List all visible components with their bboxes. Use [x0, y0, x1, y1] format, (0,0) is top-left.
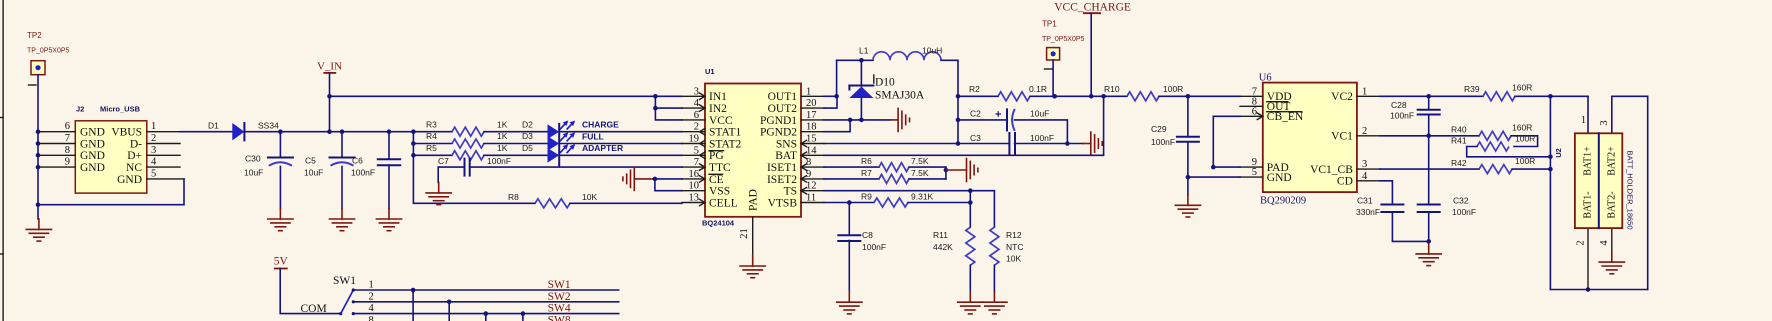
ground C30 — [268, 209, 293, 231]
svg-text:BAT1+: BAT1+ — [1583, 146, 1594, 176]
svg-text:SNS: SNS — [776, 138, 797, 150]
junction branch R4 — [411, 141, 416, 146]
svg-text:2: 2 — [1362, 126, 1367, 137]
wire V_IN vertical — [329, 73, 331, 132]
svg-text:0.1R: 0.1R — [1029, 84, 1047, 94]
svg-text:CB_EN: CB_EN — [1267, 111, 1304, 123]
LED D5 — [548, 148, 560, 163]
U1 pin 9 arrow — [801, 176, 807, 182]
capacitor C2 plus sign — [996, 111, 1002, 117]
svg-text:C5: C5 — [305, 156, 316, 166]
wire R39 to BAT1+ node — [1515, 95, 1588, 97]
J2 pin 1 — [147, 131, 180, 133]
capacitor C5 — [330, 158, 355, 166]
svg-text:20: 20 — [806, 98, 817, 109]
wire C7 to U1 TTC — [470, 166, 682, 168]
svg-text:J2: J2 — [76, 105, 84, 114]
wire C5 to ground — [341, 167, 343, 209]
wire C28 bottom — [1428, 115, 1430, 136]
svg-text:3: 3 — [151, 145, 156, 156]
junction GND bus row 7 — [36, 141, 41, 146]
wire C29 top — [1187, 96, 1189, 136]
ground C8 — [837, 292, 862, 314]
wire CD to C31 — [1380, 181, 1392, 205]
resistor R2 — [998, 92, 1030, 101]
junction rail / TP1 — [1052, 94, 1057, 99]
svg-text:R5: R5 — [426, 143, 437, 153]
svg-text:5V: 5V — [274, 256, 289, 268]
U6 CB_EN overline — [1267, 111, 1302, 113]
U1 PG overline — [709, 150, 724, 152]
svg-text:12: 12 — [806, 181, 817, 192]
wire VC1 to R40 — [1380, 135, 1479, 137]
wire C29 to ground — [1187, 142, 1189, 195]
svg-text:5: 5 — [1252, 167, 1257, 178]
svg-text:FULL: FULL — [582, 131, 604, 141]
U1 pin 3 (IN1) — [682, 95, 705, 97]
wire R6 to junction — [909, 166, 946, 168]
wire C32 bottom — [1428, 212, 1430, 243]
junction VC2 / C28 — [1426, 94, 1431, 99]
svg-text:160R: 160R — [1512, 82, 1532, 92]
svg-text:100nF: 100nF — [1030, 133, 1054, 143]
svg-text:10K: 10K — [1006, 253, 1021, 263]
wire C8 to ground — [848, 240, 850, 291]
wire ground to CE stub — [634, 178, 655, 180]
wire C32 top — [1428, 136, 1430, 205]
U1 pin 15 (SNS) — [801, 143, 824, 145]
switch SW1 arm — [341, 290, 354, 314]
U6 pin 1 (VC2) — [1357, 95, 1380, 97]
wire R11 to ground — [969, 265, 971, 292]
resistor R3 — [452, 127, 484, 136]
capacitor C31 — [1381, 205, 1403, 213]
U1 pin 2 (STAT1) — [682, 131, 705, 133]
ground U2 BAT2- — [1599, 252, 1624, 274]
svg-text:8: 8 — [65, 145, 70, 156]
resistor R8 — [535, 199, 570, 208]
wire C5 top — [341, 132, 343, 158]
ground C5 — [329, 209, 354, 231]
svg-text:C30: C30 — [245, 154, 261, 164]
J2 pin 8 — [38, 154, 75, 156]
svg-text:R4: R4 — [426, 131, 437, 141]
svg-text:VTSB: VTSB — [768, 197, 798, 209]
svg-text:100nF: 100nF — [1390, 110, 1414, 120]
junction R10 / C29 — [1186, 94, 1191, 99]
wire ISET1 to R6 — [824, 166, 879, 168]
wire rail to R2 — [958, 95, 998, 97]
LED D2 — [548, 124, 560, 139]
svg-text:IN2: IN2 — [709, 103, 727, 115]
switch SW1 common contact — [339, 312, 342, 315]
U6 OUT overline — [1267, 101, 1288, 103]
junction rail C30 — [278, 129, 283, 134]
U6 pin 9 (PAD) — [1240, 166, 1263, 168]
wire J2 VBUS to D1 — [180, 131, 232, 133]
U1 pin 6 (VCC) — [682, 119, 705, 121]
svg-text:R11: R11 — [933, 230, 948, 240]
wire C28 top — [1428, 96, 1430, 109]
wire R10 to U6 VDD — [1159, 95, 1240, 97]
svg-text:100nF: 100nF — [862, 242, 886, 252]
svg-text:7: 7 — [694, 157, 699, 168]
svg-text:10uF: 10uF — [1030, 109, 1049, 119]
wire C8 node to R9 — [849, 202, 874, 204]
diode D10 pin marker — [873, 75, 875, 83]
resistor R10 — [1127, 92, 1159, 101]
svg-text:BAT2-: BAT2- — [1607, 191, 1618, 218]
junction rail branch — [411, 129, 416, 134]
ground C31 C32 — [1416, 243, 1441, 265]
ground J2 GND bus — [26, 219, 51, 241]
svg-text:C29: C29 — [1151, 124, 1167, 134]
U1 pin 14 (BAT) — [801, 154, 824, 156]
junction SNS / output rail — [956, 141, 961, 146]
U2 pin 2 (BAT1-) — [1587, 228, 1589, 289]
svg-text:4: 4 — [151, 157, 157, 168]
wire V_IN to U1 IN1 — [330, 95, 683, 97]
svg-text:1K: 1K — [497, 143, 508, 153]
U1 pin 4 (IN2) — [682, 107, 705, 109]
U1 pin 20 (OUT2) — [801, 107, 824, 109]
svg-text:SW1: SW1 — [333, 275, 356, 287]
svg-text:R8: R8 — [508, 192, 519, 202]
U1 pin 19 (STAT2) — [682, 143, 705, 145]
wire SW4 column a down — [485, 314, 487, 321]
svg-text:6: 6 — [65, 121, 70, 132]
svg-text:GND: GND — [80, 127, 105, 139]
LED D5 emission arrows — [560, 144, 575, 153]
U6 pin 6 input arrow — [1257, 113, 1263, 119]
resistor R39 — [1483, 92, 1515, 101]
svg-text:VSS: VSS — [709, 186, 730, 198]
U1 pin 17 (PGND1) — [801, 119, 824, 121]
wire ISET junction vertical — [945, 167, 947, 179]
J2 pin 5 — [147, 178, 184, 180]
wire L1 left vertical — [836, 60, 838, 96]
wire VC1_CB to R42 — [1380, 168, 1479, 170]
U1 pin 18 (PGND2) — [801, 131, 824, 133]
svg-text:COM: COM — [300, 303, 326, 315]
wire SW4 column b down — [522, 314, 524, 321]
wire branch to R5 — [413, 154, 452, 156]
svg-text:21: 21 — [739, 228, 750, 239]
U1 pin 1 (OUT1) — [801, 95, 824, 97]
svg-text:PGND1: PGND1 — [760, 115, 797, 127]
wire BAT1+ to U2 pin1 — [1587, 96, 1589, 133]
U1 pin 7 input arrow — [700, 164, 706, 170]
resistor R4 — [452, 139, 484, 148]
ground C7 — [426, 182, 451, 204]
svg-text:2: 2 — [694, 122, 699, 133]
svg-text:1: 1 — [151, 121, 156, 132]
ground R12 — [982, 292, 1007, 314]
svg-text:BAT2+: BAT2+ — [1607, 146, 1618, 176]
capacitor C32 — [1418, 205, 1440, 213]
svg-text:330nF: 330nF — [1356, 207, 1380, 217]
test point TP1 pin marker — [1045, 68, 1053, 70]
svg-text:PGND2: PGND2 — [760, 127, 797, 139]
svg-text:C6: C6 — [352, 156, 363, 166]
svg-text:TS: TS — [784, 186, 797, 198]
wire R2 to R10 — [1030, 95, 1127, 97]
LED D2 emission arrows — [560, 121, 575, 130]
wire C6 top — [388, 132, 390, 160]
svg-text:VCC_CHARGE: VCC_CHARGE — [1054, 2, 1131, 14]
U1 pin 9 (ISET2) — [801, 178, 824, 180]
svg-text:V_IN: V_IN — [317, 61, 342, 73]
wire R40 to R41 — [1511, 136, 1538, 147]
capacitor C29 — [1177, 137, 1199, 142]
U6 pin 8 (OUT) — [1240, 105, 1263, 107]
test point TP1 body — [1047, 48, 1060, 60]
wire VC2 to R39 — [1380, 95, 1483, 97]
svg-text:D+: D+ — [127, 150, 142, 162]
junction GND bus / J2 pin5 wrap — [36, 202, 41, 207]
wire rail C30 to branch node — [280, 131, 413, 133]
junction branch R5 — [411, 153, 416, 158]
svg-text:BQ290209: BQ290209 — [1260, 196, 1306, 207]
ground C29 — [1175, 195, 1200, 217]
resistor R6 — [879, 163, 909, 172]
U1 pin 16 (CE) — [682, 178, 705, 180]
U1 pin 15 arrow — [801, 140, 807, 146]
junction PGND1 / PGND2 — [848, 118, 853, 123]
wire PGND2 up — [824, 120, 850, 132]
svg-text:C28: C28 — [1391, 100, 1407, 110]
J2 pin 7 — [38, 143, 75, 145]
svg-text:BAT1-: BAT1- — [1583, 191, 1594, 218]
wire SW2 column down — [448, 302, 450, 321]
junction SW2 column — [447, 300, 452, 305]
wire TP2 to GND bus — [37, 75, 39, 132]
capacitor C8 — [838, 235, 860, 241]
wire TS to R12 — [970, 191, 994, 228]
svg-text:2: 2 — [151, 133, 156, 144]
svg-text:D2: D2 — [522, 119, 533, 129]
ground CE VSS (sideways) — [623, 167, 634, 190]
svg-text:SW1: SW1 — [548, 279, 571, 291]
U1 pin 11 (VTSB) — [801, 202, 824, 204]
U1 pin 21 (PAD) — [752, 217, 754, 256]
U2 pin 4 (BAT2-) — [1611, 228, 1613, 252]
wire branch to R8 — [442, 202, 535, 204]
junction R9 / R11 vertical — [968, 200, 973, 205]
resistor R12 — [990, 227, 999, 265]
svg-text:R12: R12 — [1006, 230, 1022, 240]
test point TP2 pin marker — [29, 84, 37, 86]
junction IN2 branch — [653, 106, 658, 111]
wire to U1 CE — [655, 178, 682, 180]
wire rail D1 to C30 node — [244, 131, 280, 133]
wire TP1 to rail — [1052, 60, 1054, 96]
junction rail / VCC_CHARGE — [1089, 94, 1094, 99]
wire D3 to U1 — [559, 143, 682, 145]
svg-text:VC1_CB: VC1_CB — [1310, 164, 1353, 176]
capacitor C7 — [465, 159, 470, 176]
inductor L1 — [873, 52, 941, 61]
wire R12 to ground — [993, 265, 995, 292]
junction rail / BAT rail — [1101, 94, 1106, 99]
svg-text:NC: NC — [126, 162, 142, 174]
junction C31 C32 ground — [1426, 239, 1431, 244]
resistor R40 — [1479, 131, 1511, 140]
wire BAT row — [824, 96, 1104, 155]
junction output rail / C2 — [956, 118, 961, 123]
U6 pin 7 (VDD) — [1240, 95, 1263, 97]
U6 pin 5 (GND) — [1240, 176, 1263, 178]
svg-text:R6: R6 — [861, 156, 872, 166]
wire VTSB to C8 node — [824, 202, 849, 204]
U1 pin 12 arrow — [801, 188, 807, 194]
power port V_IN bar — [323, 72, 336, 74]
LED D3 emission arrows — [560, 132, 575, 141]
svg-text:4: 4 — [1362, 171, 1368, 182]
svg-text:9.31K: 9.31K — [911, 191, 934, 201]
diode D1 SS34 — [232, 123, 244, 140]
svg-text:2: 2 — [1576, 240, 1587, 245]
svg-text:D5: D5 — [522, 143, 533, 153]
svg-text:R9: R9 — [861, 191, 872, 201]
resistor R5 — [452, 151, 484, 160]
ground C6 — [376, 209, 401, 231]
svg-text:3: 3 — [1362, 159, 1367, 170]
svg-text:BQ24104: BQ24104 — [702, 219, 735, 228]
svg-text:GND: GND — [80, 150, 105, 162]
junction SW1 column — [411, 288, 416, 293]
junction SW4 column b — [521, 311, 526, 316]
svg-text:100R: 100R — [1515, 156, 1535, 166]
wire right vertical — [1612, 96, 1648, 289]
U6 pin 3 (VC1_CB) — [1357, 168, 1380, 170]
svg-text:NTC: NTC — [1006, 242, 1023, 252]
U1 pin 2 output arrow — [700, 129, 706, 135]
ground PGND (sideways) — [898, 108, 909, 131]
svg-text:ADAPTER: ADAPTER — [582, 143, 623, 153]
svg-text:CD: CD — [1337, 176, 1353, 188]
svg-text:13: 13 — [689, 193, 700, 204]
svg-text:8: 8 — [806, 157, 811, 168]
svg-text:100nF: 100nF — [351, 168, 375, 178]
svg-text:R2: R2 — [969, 84, 980, 94]
junction CB_EN / PAD — [1211, 165, 1216, 170]
svg-text:TP2: TP2 — [27, 31, 42, 40]
resistor R11 — [966, 227, 975, 265]
svg-text:10uH: 10uH — [922, 46, 942, 56]
svg-text:100nF: 100nF — [1452, 207, 1476, 217]
wire to U1 IN2 — [655, 107, 682, 109]
svg-text:VC1: VC1 — [1331, 131, 1353, 143]
svg-text:10uF: 10uF — [244, 168, 263, 178]
capacitor C6 — [378, 159, 400, 165]
svg-text:R39: R39 — [1464, 84, 1480, 94]
svg-text:GND: GND — [80, 162, 105, 174]
wire SW row 1 — [353, 289, 618, 291]
junction GND bus row 6 — [36, 129, 41, 134]
svg-text:TTC: TTC — [709, 162, 731, 174]
junction TS / R11 — [968, 188, 973, 193]
switch SW1 throw contact 2 — [352, 300, 355, 303]
svg-text:VBUS: VBUS — [111, 127, 142, 139]
svg-text:TP_0P5X0P5: TP_0P5X0P5 — [27, 48, 70, 55]
wire R4 to D3 — [484, 143, 548, 145]
svg-text:CHARGE: CHARGE — [582, 120, 619, 130]
J2 pin 6 — [38, 131, 75, 133]
svg-text:CELL: CELL — [709, 197, 738, 209]
wire C30 to ground — [279, 167, 281, 209]
svg-text:C3: C3 — [970, 133, 981, 143]
wire rail to C2 — [958, 119, 1007, 121]
svg-text:3: 3 — [1599, 120, 1610, 125]
wire bottom rail — [1550, 289, 1647, 291]
LED cathode bar — [558, 124, 560, 166]
svg-text:ISET2: ISET2 — [767, 174, 797, 186]
IC U1 body — [705, 84, 801, 217]
J2 pin 3 — [147, 154, 180, 156]
svg-text:100R: 100R — [1515, 133, 1535, 143]
resistor R7 — [879, 174, 909, 183]
svg-text:18: 18 — [806, 122, 817, 133]
sheet border left edge — [0, 0, 3, 321]
wire C3 to ground node — [1015, 143, 1083, 145]
resistor R42 — [1479, 165, 1512, 174]
U1 pin 8 (ISET1) — [801, 166, 824, 168]
IC U6 body — [1263, 83, 1357, 193]
svg-text:8: 8 — [369, 315, 374, 321]
junction OUT node — [834, 94, 839, 99]
junction rail C6 — [387, 129, 392, 134]
wire D10 anode — [860, 98, 862, 120]
U1 pin 14 arrow — [801, 152, 807, 158]
svg-text:C32: C32 — [1453, 195, 1469, 205]
junction V_IN / IN1 row — [327, 94, 332, 99]
LED D3 — [548, 136, 560, 151]
capacitor C28 — [1418, 110, 1440, 115]
svg-text:7.5K: 7.5K — [911, 156, 929, 166]
capacitor C30 — [268, 158, 293, 166]
svg-text:442K: 442K — [933, 242, 953, 252]
svg-text:SS34: SS34 — [258, 120, 279, 130]
svg-text:14: 14 — [806, 145, 817, 156]
svg-text:2: 2 — [369, 291, 374, 302]
U1 pin 8 arrow — [801, 164, 807, 170]
wire C7 left — [438, 167, 464, 182]
junction rail C5 — [340, 129, 345, 134]
J2 pin 4 — [147, 166, 180, 168]
U6 pin 6 (CB_EN) — [1240, 115, 1263, 117]
U1 pin 4 input arrow — [700, 105, 706, 111]
wire C31 to ground node — [1392, 212, 1428, 241]
U1 pin 5 output arrow — [700, 152, 706, 158]
wire C8 top — [848, 203, 850, 236]
svg-text:7: 7 — [65, 133, 70, 144]
svg-text:D1: D1 — [208, 120, 219, 130]
svg-text:5: 5 — [151, 168, 156, 179]
svg-text:C8: C8 — [862, 230, 873, 240]
junction mid node / R42 — [1548, 167, 1553, 172]
junction GND bus row 9 — [36, 165, 41, 170]
wire R3 to D2 — [484, 131, 548, 133]
wire C3 ground stub — [1083, 143, 1091, 145]
svg-text:U1: U1 — [705, 67, 715, 76]
svg-text:STAT2: STAT2 — [709, 138, 742, 150]
wire J2 pin5 to GND bus — [38, 179, 184, 205]
wire L1 left horizontal — [837, 59, 873, 61]
svg-text:R42: R42 — [1451, 158, 1467, 168]
svg-text:PG: PG — [709, 150, 724, 162]
junction PGND1 / D10 — [859, 118, 864, 123]
